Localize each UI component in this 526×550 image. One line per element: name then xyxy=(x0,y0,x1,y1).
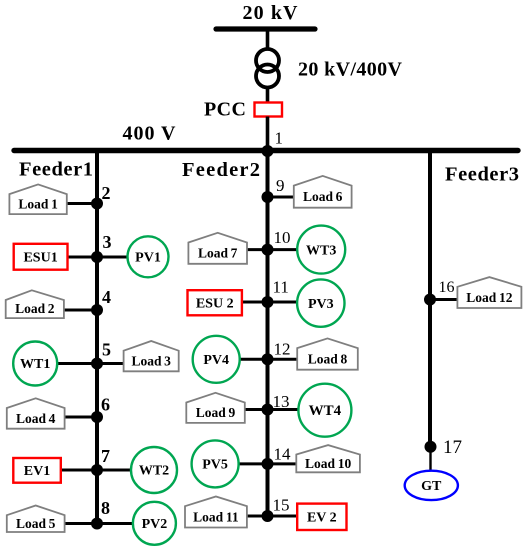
svg-text:WT3: WT3 xyxy=(306,243,336,258)
svg-text:Feeder1: Feeder1 xyxy=(19,159,93,181)
svg-text:Load 1: Load 1 xyxy=(18,197,58,212)
svg-text:PV4: PV4 xyxy=(203,353,229,368)
svg-text:Load 9: Load 9 xyxy=(196,405,236,420)
feeder3 line xyxy=(428,150,432,447)
load Load5 xyxy=(7,506,65,533)
svg-text:4: 4 xyxy=(102,287,111,307)
node 9 xyxy=(262,191,274,203)
svg-text:9: 9 xyxy=(276,176,285,195)
PV unit PV1 xyxy=(128,236,169,277)
node 7 xyxy=(91,464,103,476)
wire PCC to 400V bus xyxy=(266,117,270,152)
node 12 xyxy=(262,353,274,365)
svg-text:11: 11 xyxy=(273,278,289,297)
svg-text:Load 12: Load 12 xyxy=(466,290,512,305)
svg-text:1: 1 xyxy=(275,129,284,148)
wire WT1 to node5 xyxy=(55,362,97,365)
svg-text:2: 2 xyxy=(102,183,111,203)
load Load2 xyxy=(6,290,64,318)
wind turbine WT1 xyxy=(13,342,57,386)
PV unit PV2 xyxy=(133,502,176,545)
svg-text:13: 13 xyxy=(273,392,290,411)
storage ESU1 xyxy=(14,244,68,270)
svg-text:ESU 2: ESU 2 xyxy=(196,297,234,312)
feeder1 line xyxy=(95,150,99,524)
svg-text:PV3: PV3 xyxy=(308,297,334,312)
wire node15 to EV2 xyxy=(268,515,300,518)
svg-text:7: 7 xyxy=(101,446,110,466)
wire Load7 to node10 xyxy=(244,248,268,251)
wind turbine WT4 xyxy=(298,384,351,437)
svg-text:20 kV/400V: 20 kV/400V xyxy=(298,59,403,81)
svg-text:14: 14 xyxy=(274,445,292,464)
wire ESU1 to node3 xyxy=(66,256,97,259)
load Load12 xyxy=(457,277,521,308)
wire node11 to PV3 xyxy=(268,301,299,304)
wire Load4 to node6 xyxy=(60,416,97,419)
wire transformer to PCC breaker xyxy=(266,87,270,103)
svg-text:Load 4: Load 4 xyxy=(16,411,56,426)
svg-text:Load 6: Load 6 xyxy=(303,189,343,204)
transformer T1 xyxy=(256,49,279,72)
feeder2 line xyxy=(266,150,270,516)
svg-text:EV 2: EV 2 xyxy=(307,511,337,526)
svg-text:WT2: WT2 xyxy=(139,464,169,479)
svg-text:WT4: WT4 xyxy=(309,403,342,419)
load Load8 xyxy=(297,338,358,369)
node 16 xyxy=(424,294,436,306)
svg-text:Feeder2: Feeder2 xyxy=(182,159,260,181)
node 3 xyxy=(91,251,103,263)
wire node3 to PV1 xyxy=(97,256,129,259)
node 13 xyxy=(262,404,274,416)
wind turbine WT3 xyxy=(297,226,345,274)
breaker PCC xyxy=(255,103,283,117)
wire node5 to Load3 xyxy=(97,362,126,365)
wire node9 to Load6 xyxy=(268,196,297,199)
svg-text:8: 8 xyxy=(101,498,110,518)
load Load3 xyxy=(124,341,179,371)
wire node16 to Load12 xyxy=(430,298,459,301)
PV unit PV3 xyxy=(297,279,344,326)
wire Load5 to node8 xyxy=(60,522,97,525)
load Load11 xyxy=(185,497,247,528)
node 8 xyxy=(91,518,103,530)
svg-text:Feeder3: Feeder3 xyxy=(445,164,519,186)
storage ESU 2 xyxy=(188,290,242,315)
node 10 xyxy=(262,244,274,256)
svg-text:6: 6 xyxy=(101,395,110,415)
load Load7 xyxy=(188,233,247,264)
svg-text:15: 15 xyxy=(273,496,290,515)
wire PV4 to node12 xyxy=(238,358,268,361)
node 15 xyxy=(262,510,274,522)
svg-text:16: 16 xyxy=(439,279,455,296)
wire node12 to Load8 xyxy=(268,358,300,361)
svg-text:PV5: PV5 xyxy=(202,458,228,473)
node 17 xyxy=(425,441,437,453)
node 6 xyxy=(91,411,103,423)
load Load1 xyxy=(9,184,66,214)
svg-text:EV1: EV1 xyxy=(24,464,50,479)
svg-text:10: 10 xyxy=(274,228,291,247)
wire node13 to WT4 xyxy=(268,408,300,411)
load Load9 xyxy=(186,393,245,423)
node 11 xyxy=(262,296,274,308)
svg-text:20 kV: 20 kV xyxy=(243,2,299,24)
400 V bus xyxy=(14,148,518,153)
load Load10 xyxy=(296,445,360,472)
svg-text:Load 2: Load 2 xyxy=(15,301,55,316)
EV charger EV 2 xyxy=(297,504,346,530)
svg-text:Load 11: Load 11 xyxy=(193,509,239,524)
wire PV5 to node14 xyxy=(237,462,268,465)
node 1 xyxy=(262,145,274,157)
wire node17 to GT xyxy=(429,447,431,471)
EV charger EV1 xyxy=(13,458,61,483)
svg-text:WT1: WT1 xyxy=(20,357,50,372)
svg-text:Load 3: Load 3 xyxy=(131,354,171,369)
wire Load9 to node13 xyxy=(243,408,268,411)
load Load6 xyxy=(294,176,352,208)
svg-text:400 V: 400 V xyxy=(123,123,177,145)
svg-text:Load 10: Load 10 xyxy=(305,456,351,471)
svg-text:5: 5 xyxy=(102,340,111,360)
gas turbine GT xyxy=(405,471,458,500)
svg-text:PV2: PV2 xyxy=(142,517,168,532)
svg-text:GT: GT xyxy=(421,479,442,494)
wire Load11 to node15 xyxy=(245,515,268,518)
wire EV1 to node7 xyxy=(59,469,97,472)
wire ESU2 to node11 xyxy=(240,301,268,304)
node 4 xyxy=(91,304,103,316)
svg-text:Load 7: Load 7 xyxy=(198,246,238,261)
svg-text:12: 12 xyxy=(274,340,291,359)
svg-text:PV1: PV1 xyxy=(135,251,161,266)
PV unit PV5 xyxy=(192,440,239,487)
svg-text:PCC: PCC xyxy=(204,99,246,121)
svg-text:3: 3 xyxy=(103,232,112,252)
wire node10 to WT3 xyxy=(268,248,299,251)
wire Load2 to node4 xyxy=(60,309,97,312)
20 kV bus bar xyxy=(216,26,315,31)
wire bus to transformer xyxy=(266,29,270,50)
svg-text:Load 5: Load 5 xyxy=(16,516,56,531)
PV unit PV4 xyxy=(193,336,240,383)
wind turbine WT2 xyxy=(131,447,177,493)
svg-text:ESU1: ESU1 xyxy=(23,251,57,266)
wire node14 to Load10 xyxy=(268,462,299,465)
svg-text:Load 8: Load 8 xyxy=(308,351,348,366)
node 14 xyxy=(262,458,274,470)
wire node7 to WT2 xyxy=(97,469,132,472)
load Load4 xyxy=(7,398,65,428)
wire node8 to PV2 xyxy=(97,522,134,525)
svg-text:17: 17 xyxy=(443,437,462,458)
wire Load1 to node2 xyxy=(60,202,97,205)
node 5 xyxy=(91,358,103,370)
node 2 xyxy=(91,198,103,210)
